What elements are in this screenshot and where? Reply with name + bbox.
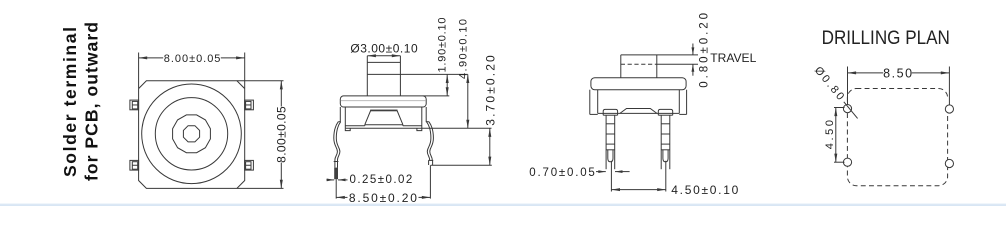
- drilling plan: dash mask: [946, 98, 950, 106]
- svg-text:8.50: 8.50: [883, 66, 912, 80]
- top view: body outline (chamfered square): [139, 81, 245, 189]
- front view: body sides: [345, 107, 422, 128]
- svg-text:Solder terminal: Solder terminal: [60, 27, 80, 177]
- dim 8.50 front: dim line: [336, 196, 430, 198]
- dim 0.25: text: [350, 174, 413, 186]
- svg-text:0.80±0.20: 0.80±0.20: [699, 13, 711, 88]
- svg-text:1.90±0.10: 1.90±0.10: [436, 18, 448, 73]
- side view: travel dashed line: [621, 63, 657, 65]
- dim 8.50 drill: extensions: [848, 67, 950, 105]
- dim 8.00 vertical: text: [275, 106, 289, 163]
- dim 3.70: bottom extension: [431, 164, 492, 166]
- dim 0.70: arrows: [596, 170, 630, 173]
- front view: top cap: [340, 96, 426, 107]
- dim 4.50 drill: text: [824, 120, 836, 149]
- svg-text:0.70±0.05: 0.70±0.05: [529, 167, 595, 179]
- dim 8.00 vertical: arrows: [280, 81, 283, 189]
- front view: inner trapezoid: [345, 110, 422, 126]
- top view: second circle: [155, 98, 227, 170]
- svg-text:0.25±0.02: 0.25±0.02: [350, 174, 413, 186]
- dim 0.25: arrows + leader: [326, 179, 347, 182]
- svg-text:4.50: 4.50: [824, 120, 836, 149]
- dim 4.90: dim line + arrows: [466, 74, 469, 128]
- dim 8.50 drill: arrows: [848, 71, 950, 74]
- drilling plan: hole top-left: [843, 105, 851, 113]
- svg-text:DRILLING PLAN: DRILLING PLAN: [822, 27, 950, 49]
- dim 8.00 horizontal: dim line: [139, 57, 245, 59]
- svg-text:4.50±0.10: 4.50±0.10: [671, 183, 738, 197]
- side view: travel extension: [657, 63, 698, 65]
- top view: terminal bottom-left: [130, 160, 139, 170]
- drilling plan: hole bottom-right: [945, 159, 953, 167]
- top view: center circle (8-gon): [183, 126, 199, 142]
- front view: body feet: [345, 128, 422, 130]
- dim 4.50 side: extensions: [611, 161, 665, 192]
- dim 8.00 horizontal: arrows: [139, 56, 245, 59]
- front view: body bottom line + ext: [345, 127, 491, 129]
- front view: left leg measured tip (thick): [334, 168, 338, 180]
- svg-text:Ø3.00±0.10: Ø3.00±0.10: [350, 42, 418, 56]
- dim 4.50 drill: dim line + arrows: [834, 108, 837, 163]
- drilling plan: hole bottom-left: [843, 158, 851, 166]
- dim 3.70: dim line + arrows: [488, 128, 491, 165]
- dim 0.80: text: [699, 13, 711, 88]
- label: Solder terminal (rotated): [60, 27, 80, 177]
- dim 8.50 front: arrows: [336, 196, 430, 199]
- svg-text:Ø0.80: Ø0.80: [812, 64, 846, 102]
- dim 8.00 vertical: extension lines: [237, 81, 284, 189]
- side view: left leg: [603, 109, 617, 169]
- svg-text:TRAVEL: TRAVEL: [710, 51, 756, 65]
- drilling plan: dashed outline: [847, 89, 947, 186]
- dim 8.50 drill: dim line: [848, 72, 950, 74]
- dim 8.00 horizontal: text: [164, 53, 221, 65]
- svg-text:8.50±0.20: 8.50±0.20: [349, 191, 417, 205]
- label 0.80 drill: text: [812, 64, 846, 102]
- side view: top cap: [591, 78, 686, 90]
- side view: body outer walls: [590, 90, 687, 115]
- side view: body inner walls: [598, 90, 680, 114]
- front view: right leg: [426, 122, 434, 165]
- dim 3.00: dim line + arrows: [367, 54, 400, 57]
- front view: travel line: [367, 73, 468, 75]
- dim 8.50 front: extensions: [336, 165, 430, 198]
- dim 8.00 horizontal: extension lines: [139, 53, 245, 89]
- dim 0.70: text: [529, 167, 595, 179]
- front view: cap seam: [341, 100, 426, 102]
- dim 4.90: text: [458, 19, 470, 79]
- dim 4.50 drill: extensions: [834, 108, 845, 163]
- drilling plan: hole top-right: [945, 105, 953, 113]
- svg-text:4.90±0.10: 4.90±0.10: [458, 19, 470, 79]
- label TRAVEL: [710, 51, 756, 65]
- top view: terminal top-right: [245, 100, 254, 110]
- dim 3.70: text: [484, 55, 498, 126]
- top view: third circle (12-gon): [173, 115, 211, 153]
- side view: plunger top + extension: [621, 54, 698, 56]
- side view: body feet: [590, 113, 687, 115]
- dim 8.50 front: text: [349, 191, 417, 205]
- bottom blue bar: [0, 203, 1006, 206]
- svg-text:3.70±0.20: 3.70±0.20: [484, 55, 498, 126]
- dim 1.90: dim line + arrows: [446, 74, 449, 96]
- top view: terminal bottom-right: [245, 160, 254, 170]
- top view: outer circle: [142, 84, 242, 184]
- top view: terminal top-left: [130, 100, 139, 110]
- svg-text:8.00±0.05: 8.00±0.05: [164, 53, 221, 65]
- dim 0.80: arrows: [692, 44, 695, 76]
- label 0.80 drill: leader line: [844, 102, 858, 119]
- front view: left leg: [334, 122, 341, 168]
- side view: body bottom: [598, 112, 680, 114]
- title DRILLING PLAN: [822, 27, 950, 49]
- label: for PCB, outward (rotated): [81, 22, 101, 181]
- dim 4.50 side: dim line + arrows: [611, 188, 665, 191]
- svg-text:for PCB, outward: for PCB, outward: [81, 22, 101, 181]
- dim 8.00 vertical: dim line: [280, 81, 282, 189]
- dim 1.90: bottom extension: [423, 95, 449, 97]
- front view: cap side pillars: [340, 107, 426, 122]
- side view: plunger: [621, 55, 657, 78]
- front view: plunger: [367, 56, 400, 96]
- svg-text:8.00±0.05: 8.00±0.05: [275, 106, 289, 163]
- side view: bottom hat: [620, 109, 657, 114]
- dim 4.50 side: text: [671, 183, 738, 197]
- dim 1.90: text: [436, 18, 448, 73]
- side view: right leg: [658, 109, 672, 169]
- dim 3.00: text: [350, 42, 418, 56]
- dim 8.50 drill: text: [883, 66, 912, 80]
